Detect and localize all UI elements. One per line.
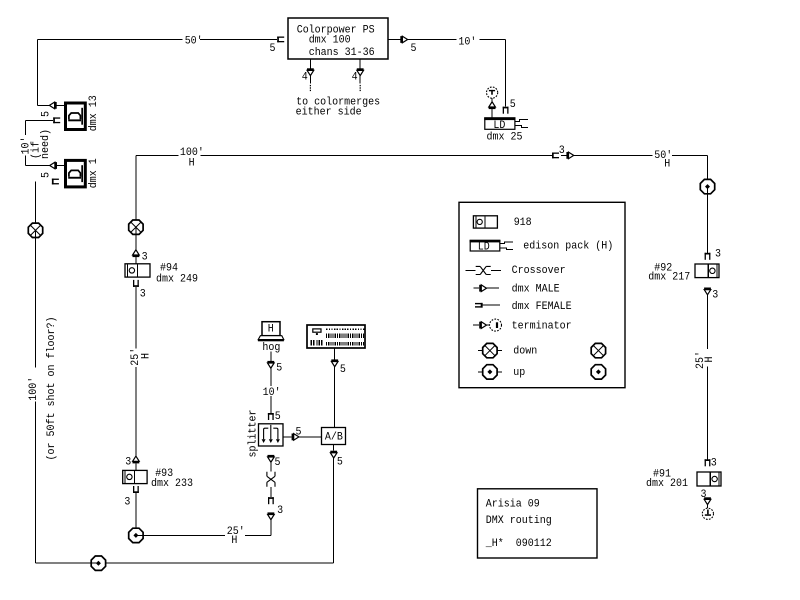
- svg-text:_H* 090112: _H* 090112: [485, 538, 552, 550]
- wire A/B down and across bottom: [106, 445, 334, 564]
- wire 10ft (if need) between dimmers: [26, 120, 54, 165]
- colormerge feed arrow left, pin 4: [302, 59, 314, 91]
- terminator at end of right run: [702, 508, 713, 519]
- wire console to A/B: [334, 348, 336, 428]
- svg-text:need): need): [40, 129, 52, 159]
- dmx MALE into dimmer dmx13: [49, 102, 64, 109]
- A/B switch box: [322, 428, 346, 445]
- 918 pack 91 dmx 201: [646, 468, 721, 490]
- svg-text:3: 3: [125, 457, 131, 469]
- svg-text:3: 3: [140, 289, 146, 301]
- power supply U1 Colorpower PS box: [288, 18, 388, 59]
- svg-text:3: 3: [712, 290, 718, 302]
- svg-text:4: 4: [352, 72, 358, 84]
- svg-text:100': 100': [28, 377, 40, 401]
- colormerge feed arrow right, pin 4: [352, 59, 364, 91]
- wire from dmx1 down left side 100ft: [35, 182, 37, 564]
- svg-text:3: 3: [559, 145, 565, 157]
- label 100' H: [179, 147, 204, 169]
- svg-text:5: 5: [41, 172, 53, 178]
- legend crossover symbol: [465, 265, 565, 277]
- legend terminator symbol: [473, 319, 572, 332]
- legend up sample: [591, 365, 605, 379]
- legend dmx FEMALE symbol: [475, 301, 572, 313]
- legend 918 pack symbol: [473, 216, 531, 229]
- dmx FEMALE into pack 92, pin 3: [705, 248, 721, 260]
- svg-text:3: 3: [715, 248, 721, 260]
- note to colormerges either side: [296, 97, 381, 119]
- svg-text:dmx 249: dmx 249: [156, 274, 198, 286]
- svg-text:10': 10': [458, 36, 476, 48]
- svg-text:Crossover: Crossover: [512, 265, 566, 277]
- svg-text:dmx 1: dmx 1: [88, 158, 100, 188]
- dmx MALE lower splitter chain, pin 3: [268, 512, 275, 519]
- svg-text:splitter: splitter: [248, 410, 260, 458]
- svg-text:dmx 217: dmx 217: [648, 272, 690, 284]
- svg-text:terminator: terminator: [512, 320, 572, 332]
- svg-text:H: H: [268, 323, 274, 335]
- svg-text:5: 5: [337, 456, 343, 468]
- legend box: [459, 202, 625, 387]
- svg-text:918: 918: [514, 217, 532, 229]
- edison pack LD dmx 25: [484, 117, 528, 143]
- dmx FEMALE into LD pack, pin 5: [503, 99, 516, 114]
- splitter box: [248, 410, 284, 458]
- legend up symbol: [478, 365, 526, 380]
- svg-text:5: 5: [275, 411, 281, 423]
- legend edison pack symbol: [470, 240, 614, 254]
- svg-text:10': 10': [263, 387, 281, 399]
- wire splitter to A/B: [283, 436, 322, 438]
- svg-text:dmx 100: dmx 100: [309, 35, 351, 47]
- dmx FEMALE into pack 91, pin 3: [705, 457, 717, 469]
- dmx FEMALE out of dimmer dmx13, pin 5: [41, 111, 61, 123]
- svg-text:Arisia 09: Arisia 09: [486, 498, 540, 510]
- svg-text:dmx 201: dmx 201: [646, 478, 688, 490]
- label 10' on wire: [457, 33, 478, 48]
- svg-text:50': 50': [185, 36, 203, 48]
- svg-text:4: 4: [302, 72, 308, 84]
- note (or 50ft shot on floor?) rotated: [46, 317, 58, 461]
- dmx MALE out of pack 92, pin 3: [704, 288, 718, 302]
- label 25' H rotated on right wire: [695, 351, 716, 369]
- up symbol on bottom wire: [91, 556, 105, 570]
- dmx MALE out of pack 91, pin 3: [701, 489, 711, 508]
- dmx MALE into dimmer dmx1: [50, 162, 64, 169]
- dmx FEMALE out of pack 93, pin 3: [124, 486, 138, 528]
- svg-text:hog: hog: [262, 342, 280, 354]
- 918 pack 92 dmx 217: [648, 262, 719, 283]
- svg-text:dmx 13: dmx 13: [88, 95, 100, 131]
- lighting console icon: [307, 325, 365, 348]
- svg-text:LD: LD: [493, 120, 505, 132]
- svg-text:DMX routing: DMX routing: [486, 515, 552, 527]
- dmx MALE out of hog, pin 5: [267, 361, 282, 375]
- svg-text:3: 3: [701, 489, 707, 501]
- svg-text:H: H: [231, 535, 237, 547]
- label 10' (if need) rotated: [20, 129, 52, 159]
- dmx MALE out of console, pin 5: [331, 359, 346, 375]
- up symbol at bottom of middle wire: [129, 528, 271, 542]
- legend dmx MALE symbol: [473, 284, 560, 296]
- svg-text:3: 3: [277, 505, 283, 517]
- title block Arisia 09 DMX routing: [478, 489, 598, 558]
- svg-text:dmx 25: dmx 25: [487, 131, 523, 143]
- svg-text:edison pack (H): edison pack (H): [523, 241, 613, 253]
- dmx MALE connector out of Colorpower PS, pin 5: [400, 36, 416, 55]
- label 25' H rotated on middle wire: [130, 348, 153, 366]
- dmx FEMALE into splitter, pin 5: [268, 411, 281, 423]
- dmx FEMALE out of pack 94, pin 3: [133, 280, 146, 349]
- dmx MALE out of A/B, pin 5: [330, 451, 343, 469]
- label 10' on hog wire: [263, 387, 281, 399]
- label 50' H: [654, 150, 673, 171]
- svg-text:down: down: [513, 346, 537, 358]
- svg-text:5: 5: [275, 457, 281, 469]
- wire down right side: [707, 155, 709, 459]
- svg-text:3: 3: [124, 496, 130, 508]
- svg-text:H: H: [664, 159, 670, 171]
- wire hog to splitter 10ft: [270, 352, 272, 414]
- svg-text:3: 3: [711, 457, 717, 469]
- terminator on LD pack input: [487, 87, 498, 118]
- wire 50ft from Colorpower PS to dimmers: [38, 40, 278, 106]
- svg-text:dmx MALE: dmx MALE: [512, 284, 560, 296]
- svg-text:dmx FEMALE: dmx FEMALE: [512, 301, 572, 313]
- svg-text:5: 5: [276, 363, 282, 375]
- svg-text:5: 5: [296, 427, 302, 439]
- dmx FEMALE out of dimmer dmx1, pin 5: [41, 172, 59, 184]
- svg-text:5: 5: [411, 43, 417, 55]
- dmx FEMALE at 100ft junction: [552, 153, 559, 159]
- wire 100ft H main run: [136, 154, 708, 156]
- svg-text:5: 5: [510, 99, 516, 111]
- dmx FEMALE mid splitter chain, pin 3: [268, 497, 283, 517]
- 918 pack 94 dmx 249: [125, 263, 198, 286]
- hog console icon: [258, 322, 284, 354]
- svg-text:H: H: [189, 157, 195, 169]
- dmx MALE into pack 94, pin 3: [133, 250, 148, 264]
- svg-text:(or 50ft shot on floor?): (or 50ft shot on floor?): [46, 317, 58, 461]
- svg-text:H: H: [140, 353, 152, 359]
- svg-text:5: 5: [41, 111, 53, 117]
- wire down middle from 100ft H: [135, 155, 137, 456]
- dmx MALE splitter to A/B, pin 5: [292, 427, 302, 441]
- svg-text:3: 3: [142, 252, 148, 264]
- dmx MALE at 100ft junction, pin 3: [559, 145, 574, 159]
- crossover on splitter chain: [267, 462, 275, 498]
- svg-text:up: up: [513, 367, 525, 379]
- svg-text:LD: LD: [478, 241, 490, 253]
- svg-text:chans 31-36: chans 31-36: [309, 47, 375, 59]
- dmx FEMALE connector into Colorpower PS, pin 5: [270, 37, 285, 55]
- label 100' rotated on left wire: [27, 369, 40, 401]
- down symbol on middle wire: [129, 220, 143, 250]
- svg-text:H: H: [704, 357, 716, 363]
- wire Colorpower PS output: [389, 40, 506, 107]
- legend down symbol: [478, 343, 538, 357]
- svg-text:5: 5: [340, 364, 346, 376]
- wire up to splitter chain corner: [270, 519, 272, 535]
- dimmer D dmx 13: [66, 95, 101, 131]
- legend down sample: [591, 343, 605, 357]
- dimmer D dmx 1: [66, 158, 101, 188]
- dmx MALE out of splitter bottom, pin 5: [268, 455, 281, 469]
- dmx MALE into pack 93, pin 3: [125, 456, 139, 470]
- wire bottom left: [36, 562, 92, 564]
- label 50' on wire: [183, 35, 203, 48]
- 918 pack 93 dmx 233: [123, 468, 193, 490]
- svg-text:A/B: A/B: [325, 431, 343, 443]
- svg-text:5: 5: [270, 43, 276, 55]
- svg-text:either side: either side: [296, 107, 362, 119]
- svg-text:dmx 233: dmx 233: [151, 478, 193, 490]
- label 25' H on bottom wire: [227, 526, 245, 547]
- up symbol on right wire: [700, 179, 714, 252]
- down symbol on left wire: [28, 223, 42, 367]
